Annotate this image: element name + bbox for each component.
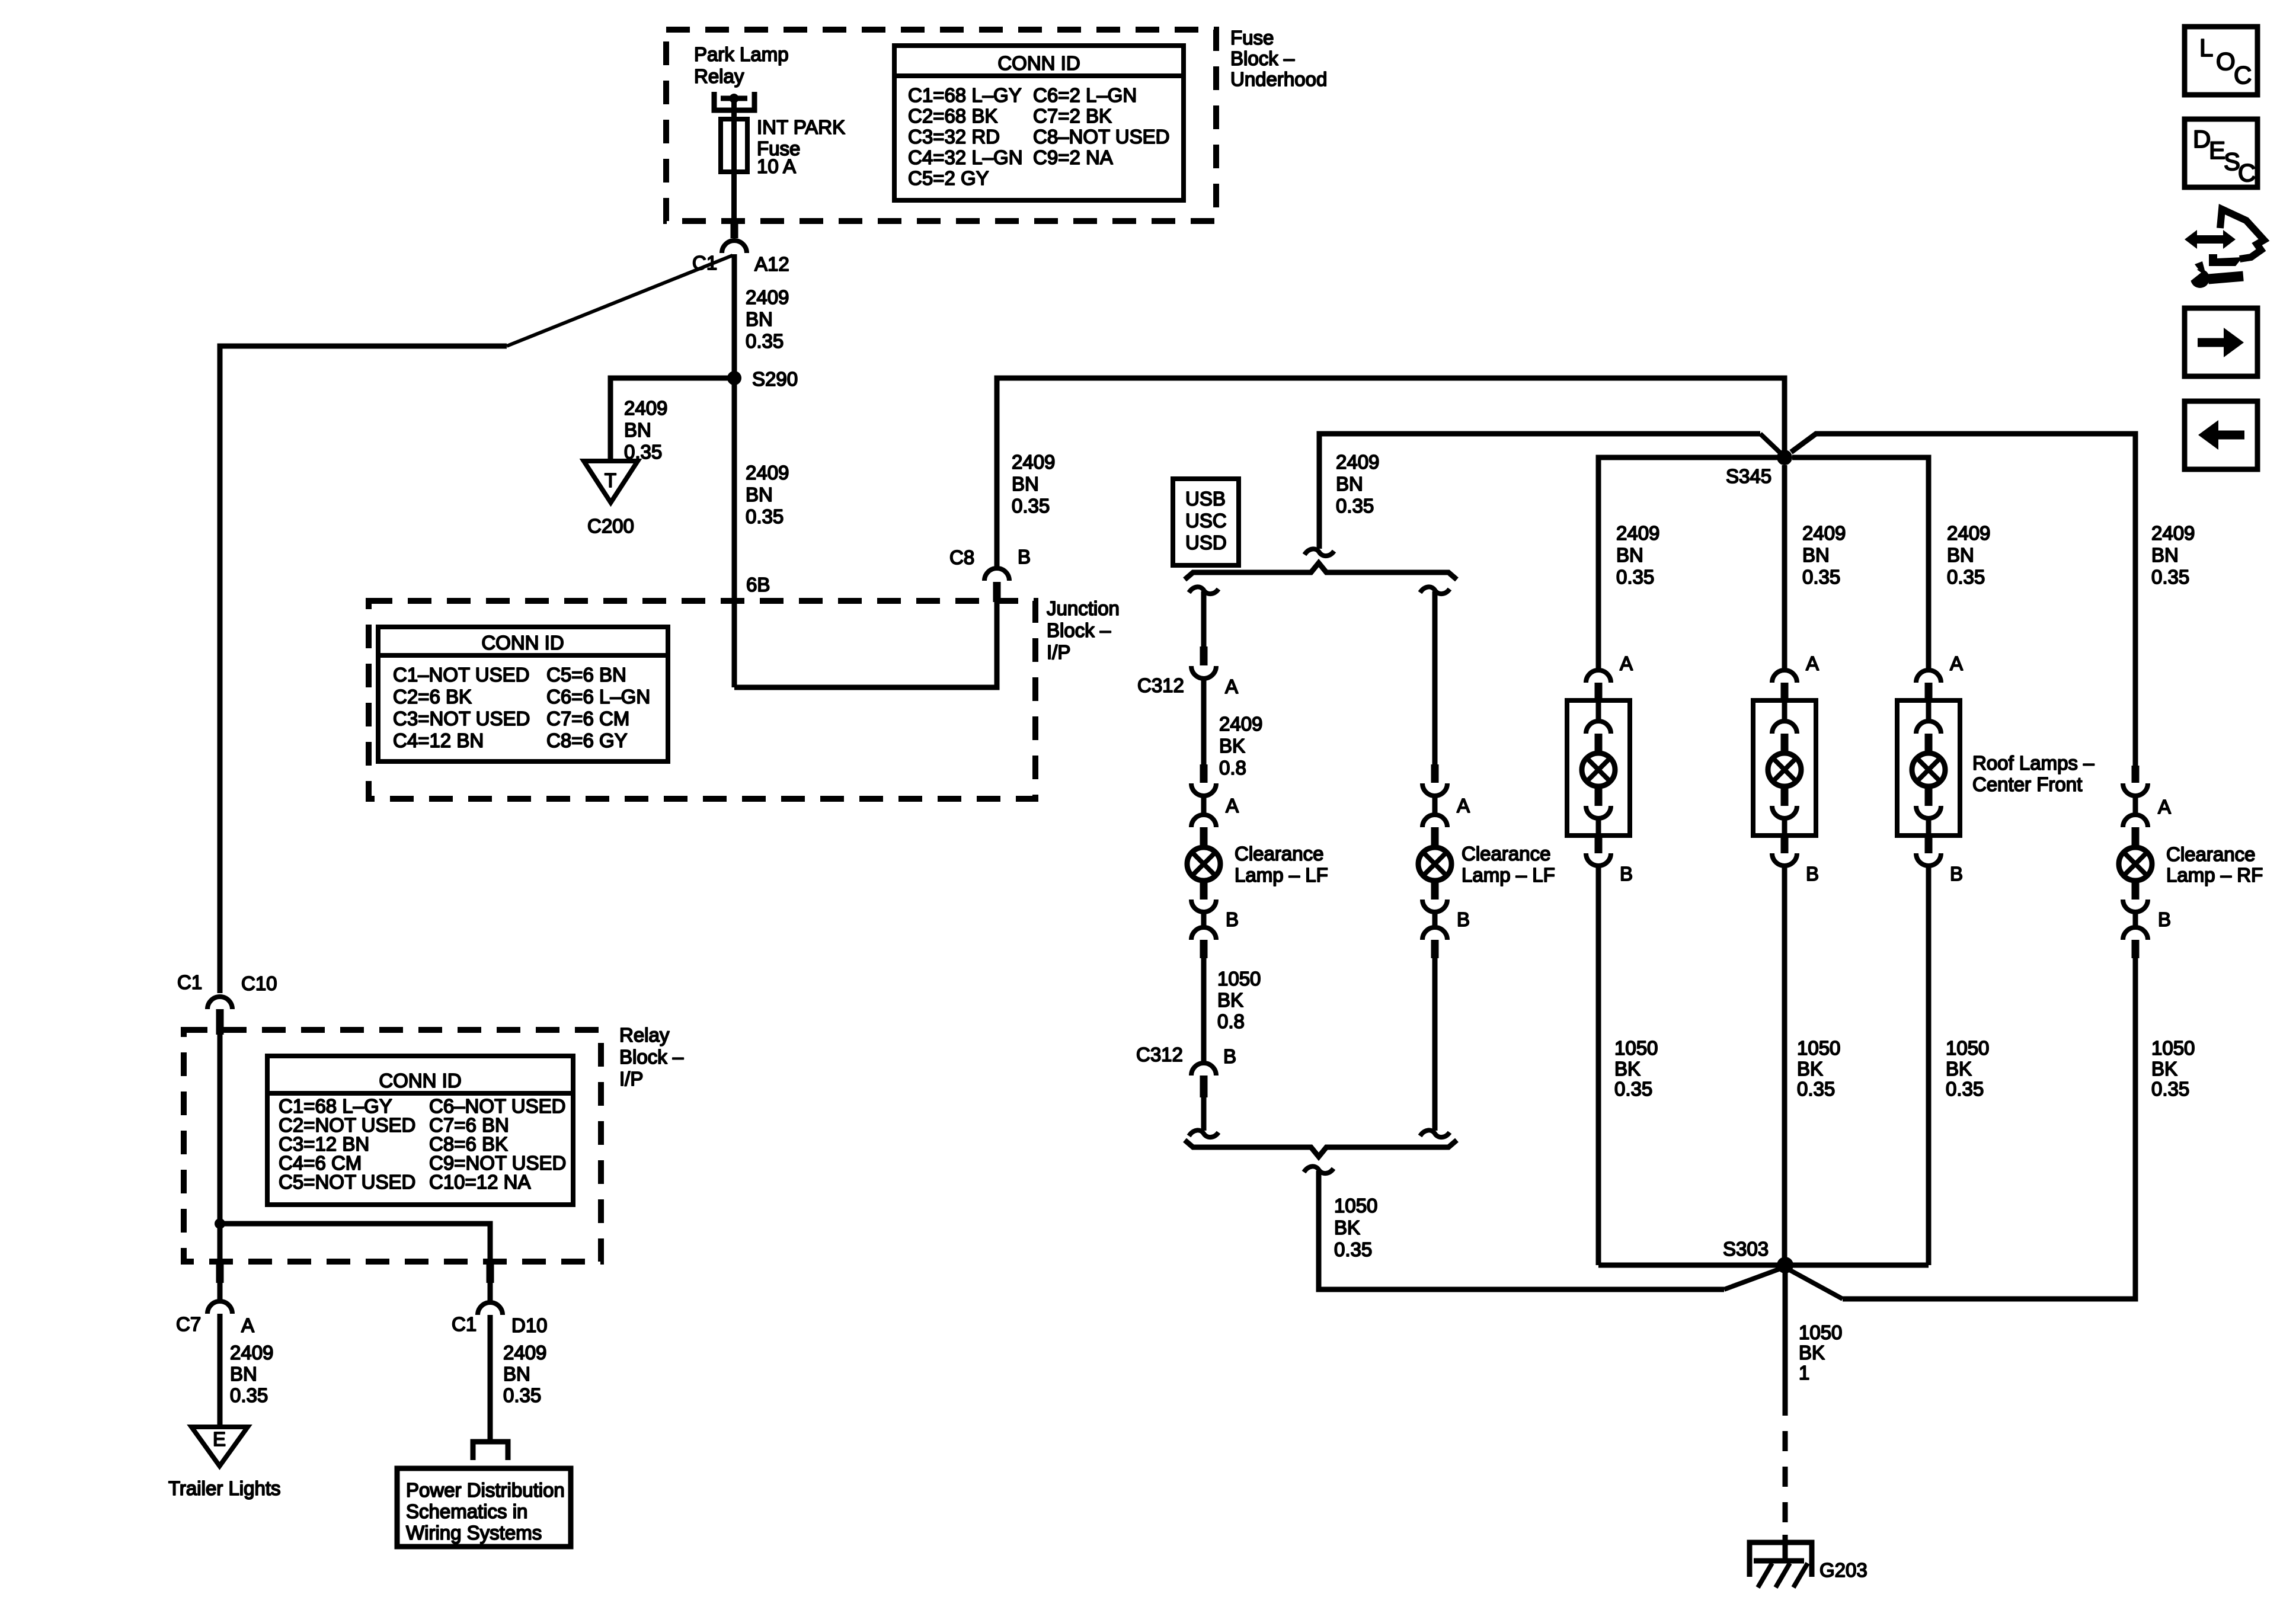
svg-text:C8=6 GY: C8=6 GY xyxy=(546,729,628,751)
svg-text:A: A xyxy=(1226,795,1239,817)
relay block dashed box xyxy=(184,1030,601,1262)
svg-text:C10=12 NA: C10=12 NA xyxy=(429,1171,531,1193)
svg-text:1050: 1050 xyxy=(1797,1037,1840,1059)
svg-text:Relay: Relay xyxy=(694,65,744,87)
svg-text:0.35: 0.35 xyxy=(746,505,784,527)
conn id table fuse block xyxy=(894,46,1184,200)
svg-text:A: A xyxy=(1457,795,1470,817)
svg-text:B: B xyxy=(2158,908,2171,930)
svg-text:BN: BN xyxy=(1012,473,1039,495)
svg-text:BK: BK xyxy=(1334,1217,1360,1238)
svg-text:C3=NOT USED: C3=NOT USED xyxy=(393,708,530,729)
roof lamp 3 xyxy=(1897,652,1963,1265)
svg-text:B: B xyxy=(1018,546,1031,568)
connector T triangle C200 xyxy=(584,461,638,502)
USB USC USD box xyxy=(1173,479,1239,565)
svg-text:A: A xyxy=(1225,676,1238,697)
svg-text:C10: C10 xyxy=(241,972,277,994)
diagonal wire to left branch xyxy=(507,255,733,346)
wire label 2409 BN 0.35 (C200 branch) xyxy=(624,397,667,463)
power distribution reference box xyxy=(397,1468,571,1547)
svg-text:0.35: 0.35 xyxy=(1614,1078,1652,1100)
svg-text:0.35: 0.35 xyxy=(746,330,784,352)
wire fuse to connector xyxy=(731,172,737,220)
fuse block label xyxy=(1230,27,1327,90)
roof lamps label xyxy=(1972,752,2094,795)
svg-text:0.35: 0.35 xyxy=(1946,1078,1984,1100)
svg-text:1050: 1050 xyxy=(2151,1037,2195,1059)
clearance lamp LF #2 connector B xyxy=(1422,881,1470,958)
svg-text:C1: C1 xyxy=(452,1313,477,1335)
svg-text:T: T xyxy=(605,469,616,491)
svg-text:BN: BN xyxy=(503,1363,530,1385)
svg-text:BK: BK xyxy=(1219,735,1245,757)
svg-text:C1: C1 xyxy=(177,971,202,993)
junction block label xyxy=(1047,597,1120,663)
svg-text:D10: D10 xyxy=(511,1314,548,1336)
off-page bracket xyxy=(473,1442,508,1460)
svg-text:C4=12 BN: C4=12 BN xyxy=(393,729,484,751)
svg-text:0.8: 0.8 xyxy=(1217,1010,1245,1032)
svg-text:A: A xyxy=(1620,652,1633,674)
svg-text:0.35: 0.35 xyxy=(1947,566,1985,588)
svg-text:INT PARK: INT PARK xyxy=(757,116,845,138)
clearance lamp LF #2 connector A xyxy=(1422,764,1470,847)
svg-text:Clearance: Clearance xyxy=(1462,843,1550,865)
svg-text:1050: 1050 xyxy=(1217,968,1261,990)
splice S345 xyxy=(1777,450,1792,465)
svg-text:USD: USD xyxy=(1185,532,1227,553)
svg-text:2409: 2409 xyxy=(624,397,667,419)
junction node in relay block xyxy=(215,1218,225,1229)
roof lamp 1 xyxy=(1567,652,1633,1265)
svg-text:Trailer Lights: Trailer Lights xyxy=(168,1477,281,1499)
wire 2409 feed to LF harness xyxy=(1319,434,1760,549)
svg-text:0.35: 0.35 xyxy=(1616,566,1654,588)
svg-text:10 A: 10 A xyxy=(757,155,796,177)
wire label 2409 BN 0.35 (main vertical) xyxy=(746,462,789,527)
clearance lamp LF #1 connector A xyxy=(1191,764,1239,847)
svg-text:B: B xyxy=(1806,863,1819,885)
svg-text:0.35: 0.35 xyxy=(2151,566,2189,588)
svg-text:USC: USC xyxy=(1185,510,1227,532)
svg-text:Clearance: Clearance xyxy=(2166,843,2255,865)
svg-text:C6=2 L–GN: C6=2 L–GN xyxy=(1033,84,1137,106)
fuse block underhood dashed box xyxy=(666,30,1216,221)
svg-text:Lamp – LF: Lamp – LF xyxy=(1235,864,1328,886)
svg-text:2409: 2409 xyxy=(230,1342,273,1363)
svg-text:2409: 2409 xyxy=(1947,522,1990,544)
svg-text:Block –: Block – xyxy=(1047,619,1111,641)
svg-text:Wiring Systems: Wiring Systems xyxy=(406,1522,542,1544)
svg-text:C6=6 L–GN: C6=6 L–GN xyxy=(546,686,650,708)
svg-text:C4=32 L–GN: C4=32 L–GN xyxy=(908,146,1023,168)
svg-text:0.35: 0.35 xyxy=(1336,495,1374,517)
harness break squiggle (LF2 bottom) xyxy=(1420,1130,1450,1137)
svg-text:CONN ID: CONN ID xyxy=(481,632,564,654)
svg-text:0.35: 0.35 xyxy=(1797,1078,1835,1100)
wires inside relay block xyxy=(218,1035,223,1262)
svg-text:6B: 6B xyxy=(746,574,770,596)
wire inside junction block xyxy=(734,602,997,687)
harness brace bottom xyxy=(1185,1140,1457,1157)
wire label 1050 BK 0.35 (roof lamp 2) xyxy=(1797,1037,1840,1100)
svg-text:0.35: 0.35 xyxy=(2151,1078,2189,1100)
svg-text:2409: 2409 xyxy=(1336,451,1379,473)
svg-text:A: A xyxy=(2158,796,2171,818)
clearance lamp LF #2 xyxy=(1418,847,1451,881)
wire label 1050 BK 0.35 (roof lamp 3) xyxy=(1946,1037,1989,1100)
main vertical wire A12 to junction block xyxy=(732,254,737,687)
wire to roof lamp 2 xyxy=(1782,465,1787,672)
svg-text:BK: BK xyxy=(1797,1058,1823,1080)
harness break squiggle (below bottom brace) xyxy=(1304,1166,1334,1173)
connector C1 D10 xyxy=(487,1262,494,1283)
svg-text:1: 1 xyxy=(1799,1362,1809,1384)
svg-text:Lamp – LF: Lamp – LF xyxy=(1462,864,1555,886)
icon LOC box xyxy=(2185,27,2257,95)
clearance lamp LF #1 connector B xyxy=(1191,881,1239,958)
svg-text:1050: 1050 xyxy=(1614,1037,1658,1059)
wire label 1050 BK 1 xyxy=(1799,1321,1842,1384)
svg-text:Lamp – RF: Lamp – RF xyxy=(2166,864,2263,886)
svg-text:BN: BN xyxy=(1336,473,1363,495)
svg-text:Fuse: Fuse xyxy=(1230,27,1274,49)
svg-text:B: B xyxy=(1620,863,1633,885)
relay contact xyxy=(714,92,754,119)
wire label 2409 BK 0.8 xyxy=(1219,713,1262,779)
svg-text:B: B xyxy=(1226,908,1239,930)
svg-text:CONN ID: CONN ID xyxy=(997,52,1080,74)
wire LF drop 2 xyxy=(1420,587,1450,594)
svg-text:BN: BN xyxy=(1947,544,1974,566)
svg-text:C3=32 RD: C3=32 RD xyxy=(908,126,1000,148)
wire label 2409 BN 0.35 (LF feed) xyxy=(1336,451,1379,517)
svg-text:E: E xyxy=(213,1428,226,1450)
svg-text:BK: BK xyxy=(1614,1058,1641,1080)
wire label 2409 BN 0.35 (trailer) xyxy=(230,1342,273,1406)
svg-text:O: O xyxy=(2216,47,2236,75)
connector C8 B xyxy=(993,582,1001,602)
svg-text:I/P: I/P xyxy=(619,1068,643,1090)
svg-text:1050: 1050 xyxy=(1799,1321,1842,1343)
svg-text:BN: BN xyxy=(1616,544,1643,566)
wire brace to S303 xyxy=(1319,1171,1724,1289)
svg-text:1050: 1050 xyxy=(1946,1037,1989,1059)
svg-text:BK: BK xyxy=(1799,1342,1825,1363)
svg-text:B: B xyxy=(1457,908,1470,930)
park lamp relay label xyxy=(694,43,789,87)
svg-text:BK: BK xyxy=(1217,989,1243,1011)
svg-text:C1–NOT USED: C1–NOT USED xyxy=(393,664,529,686)
slant into S345 xyxy=(1760,434,1785,457)
roof lamp 2 xyxy=(1753,652,1819,1265)
wire C7 to trailer lights xyxy=(218,1314,223,1427)
svg-text:Block –: Block – xyxy=(619,1046,684,1068)
svg-text:C9=2 NA: C9=2 NA xyxy=(1033,146,1113,168)
svg-text:BK: BK xyxy=(2151,1058,2177,1080)
wire label 1050 BK 0.35 (roof lamp 1) xyxy=(1614,1037,1658,1100)
icon next arrow box xyxy=(2185,308,2257,376)
wire label 1050 BK 0.35 (RF) xyxy=(2151,1037,2195,1100)
svg-text:USB: USB xyxy=(1185,488,1226,510)
svg-text:0.35: 0.35 xyxy=(1012,495,1050,517)
ground G203 xyxy=(1750,1535,1812,1587)
clearance lamp RF column xyxy=(2119,766,2171,958)
svg-text:C8: C8 xyxy=(949,546,974,568)
junction block dashed box xyxy=(369,601,1035,799)
svg-text:E: E xyxy=(2209,136,2225,164)
wire to roof lamp 3 xyxy=(1792,457,1929,672)
svg-text:C200: C200 xyxy=(587,515,634,537)
svg-text:0.35: 0.35 xyxy=(230,1384,268,1406)
wire to roof lamp 1 xyxy=(1598,457,1777,672)
svg-text:1050: 1050 xyxy=(1334,1195,1377,1217)
icon DESC box xyxy=(2185,119,2257,187)
svg-text:C312: C312 xyxy=(1137,674,1184,696)
conn id table relay block xyxy=(267,1056,573,1205)
svg-text:BN: BN xyxy=(1802,544,1830,566)
wire label 2409 BN 0.35 (C8 riser) xyxy=(1012,451,1055,517)
svg-text:2409: 2409 xyxy=(1616,522,1659,544)
wire label 2409 BN 0.35 (RF lamp) xyxy=(2151,522,2195,588)
svg-text:Relay: Relay xyxy=(619,1024,670,1046)
harness break squiggle (LF drop 1) xyxy=(1189,587,1219,594)
svg-text:A12: A12 xyxy=(754,253,789,275)
wire to RF lamp xyxy=(1791,434,2135,766)
svg-text:C5=2 GY: C5=2 GY xyxy=(908,167,989,189)
svg-text:Power Distribution: Power Distribution xyxy=(406,1479,565,1501)
svg-text:2409: 2409 xyxy=(1012,451,1055,473)
svg-text:BN: BN xyxy=(746,308,773,330)
svg-text:S303: S303 xyxy=(1723,1238,1769,1260)
svg-text:C1=68 L–GY: C1=68 L–GY xyxy=(908,84,1022,106)
svg-text:BK: BK xyxy=(1946,1058,1972,1080)
svg-text:BN: BN xyxy=(624,419,651,441)
wire label 1050 BK 0.8 xyxy=(1217,968,1261,1032)
splice S303 xyxy=(1777,1257,1793,1273)
connector C1 A12 xyxy=(722,241,747,253)
svg-text:C7: C7 xyxy=(176,1313,201,1335)
svg-text:Center Front: Center Front xyxy=(1972,773,2082,795)
wire S290 to C200 xyxy=(610,378,734,461)
svg-text:B: B xyxy=(1950,863,1963,885)
clearance lamp LF #1 xyxy=(1187,847,1220,881)
wire label 2409 BN 0.35 (roof lamp 2) xyxy=(1802,522,1846,588)
svg-text:S345: S345 xyxy=(1726,465,1771,487)
svg-text:BN: BN xyxy=(746,484,773,505)
harness break squiggle (feed) xyxy=(1304,549,1334,556)
harness brace top xyxy=(1185,563,1457,580)
icon back arrow box xyxy=(2185,401,2257,469)
svg-text:BN: BN xyxy=(230,1363,257,1385)
svg-text:Schematics in: Schematics in xyxy=(406,1500,527,1522)
svg-text:0.35: 0.35 xyxy=(1334,1238,1372,1260)
svg-text:Block –: Block – xyxy=(1230,47,1295,69)
svg-text:L: L xyxy=(2199,34,2213,62)
svg-text:S290: S290 xyxy=(752,368,798,390)
svg-text:0.8: 0.8 xyxy=(1219,757,1246,779)
svg-text:0.35: 0.35 xyxy=(1802,566,1840,588)
svg-text:C2=6 BK: C2=6 BK xyxy=(393,686,472,708)
svg-text:Underhood: Underhood xyxy=(1230,68,1327,90)
wire LF drop 1 xyxy=(1201,591,1207,646)
connector C7 A xyxy=(216,1262,224,1283)
wire label 1050 BK 0.35 (brace out) xyxy=(1334,1195,1377,1260)
wire horizontal to left edge xyxy=(220,346,507,993)
svg-text:C7=6 CM: C7=6 CM xyxy=(546,708,629,729)
wire C8 up and across to S345 xyxy=(997,378,1785,566)
conn id table junction block xyxy=(378,627,668,761)
svg-text:2409: 2409 xyxy=(1219,713,1262,735)
svg-text:2409: 2409 xyxy=(503,1342,546,1363)
wire RF down to S303 xyxy=(1843,958,2135,1299)
svg-text:C5=NOT USED: C5=NOT USED xyxy=(279,1171,415,1193)
svg-text:BN: BN xyxy=(2151,544,2179,566)
svg-text:2409: 2409 xyxy=(2151,522,2195,544)
svg-text:Roof Lamps –: Roof Lamps – xyxy=(1972,752,2094,774)
fuse INT PARK 10A xyxy=(721,119,747,172)
svg-text:CONN ID: CONN ID xyxy=(379,1070,461,1092)
svg-text:C312: C312 xyxy=(1136,1044,1183,1065)
svg-text:2409: 2409 xyxy=(1802,522,1846,544)
icon component locator (dog head with arrow and wrench) xyxy=(2185,209,2264,288)
svg-text:G203: G203 xyxy=(1819,1559,1868,1581)
svg-text:2409: 2409 xyxy=(746,286,789,308)
svg-text:A: A xyxy=(1950,652,1963,674)
svg-text:C8–NOT USED: C8–NOT USED xyxy=(1033,126,1169,148)
svg-text:0.35: 0.35 xyxy=(503,1384,541,1406)
connector C312 A xyxy=(1191,666,1216,678)
svg-text:Park Lamp: Park Lamp xyxy=(694,43,789,65)
wire label 2409 BN 0.35 (roof lamp 1) xyxy=(1616,522,1659,588)
connector C312 B xyxy=(1191,1063,1216,1076)
relay block label xyxy=(619,1024,684,1090)
svg-text:C2=68 BK: C2=68 BK xyxy=(908,105,997,127)
wire label 2409 BN 0.35 (D10) xyxy=(503,1342,546,1406)
svg-text:C: C xyxy=(2238,159,2256,187)
wire label 2409 BN 0.35 below A12 xyxy=(746,286,789,352)
wire S303 to ground xyxy=(1783,1265,1788,1395)
svg-text:2409: 2409 xyxy=(746,462,789,484)
svg-text:C: C xyxy=(2234,61,2252,89)
svg-text:Clearance: Clearance xyxy=(1235,843,1323,865)
splice S290 xyxy=(727,371,741,385)
wire D10 to power distribution xyxy=(488,1315,493,1442)
off-page triangle E trailer lights xyxy=(191,1427,248,1466)
connector C1 C10 xyxy=(207,997,232,1009)
svg-text:C5=6 BN: C5=6 BN xyxy=(546,664,626,686)
svg-text:D: D xyxy=(2193,125,2211,153)
svg-text:A: A xyxy=(1806,652,1819,674)
svg-text:C7=2 BK: C7=2 BK xyxy=(1033,105,1112,127)
wire label 2409 BN 0.35 (roof lamp 3) xyxy=(1947,522,1990,588)
svg-text:B: B xyxy=(1223,1045,1236,1067)
svg-text:A: A xyxy=(241,1314,254,1336)
svg-text:Junction: Junction xyxy=(1047,597,1120,619)
wires roof lamps into S303 xyxy=(1598,1263,1785,1268)
harness break squiggle (LF1 bottom) xyxy=(1189,1130,1219,1137)
svg-text:I/P: I/P xyxy=(1047,641,1070,663)
